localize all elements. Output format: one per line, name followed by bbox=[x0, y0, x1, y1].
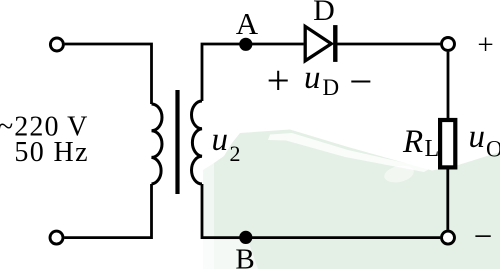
svg-text:D: D bbox=[323, 75, 340, 100]
node B bbox=[239, 231, 252, 244]
diode D triangle bbox=[305, 26, 331, 60]
svg-text:u: u bbox=[469, 119, 486, 155]
svg-text:A: A bbox=[236, 6, 259, 41]
svg-text:2: 2 bbox=[230, 141, 241, 166]
svg-text:+: + bbox=[477, 29, 493, 61]
wire primary to terminal bottom-left bbox=[64, 184, 151, 238]
svg-text:−: − bbox=[349, 58, 372, 104]
svg-text:B: B bbox=[235, 244, 254, 269]
svg-text:O: O bbox=[486, 137, 500, 162]
resistor RL bbox=[440, 120, 455, 167]
wire terminal top-right to resistor bbox=[447, 52, 450, 119]
wire top-left to primary bbox=[65, 44, 152, 104]
node A bbox=[239, 38, 252, 51]
svg-text:L: L bbox=[425, 136, 440, 162]
terminal top-right bbox=[442, 38, 455, 51]
watermark green region bbox=[214, 130, 500, 269]
watermark light blob bbox=[383, 163, 416, 185]
svg-text:−: − bbox=[474, 219, 493, 255]
svg-text:u: u bbox=[212, 122, 229, 158]
svg-text:R: R bbox=[402, 124, 423, 160]
wire diode to terminal top-right bbox=[338, 43, 441, 46]
watermark soft left strip bbox=[203, 163, 214, 269]
svg-text:50 Hz: 50 Hz bbox=[14, 137, 89, 168]
svg-text:+: + bbox=[267, 57, 290, 103]
terminal bottom-right bbox=[442, 231, 455, 244]
terminal bottom-left bbox=[50, 231, 63, 244]
svg-text:D: D bbox=[313, 0, 335, 27]
watermark light streak bbox=[268, 133, 430, 172]
wire secondary bottom bbox=[202, 184, 440, 238]
terminal top-left bbox=[50, 38, 63, 51]
wire resistor to terminal bottom-right bbox=[446, 168, 449, 230]
transformer secondary winding bbox=[192, 101, 202, 184]
watermark light pocket below B bbox=[203, 240, 258, 269]
transformer core bbox=[175, 90, 179, 194]
transformer primary winding bbox=[152, 104, 163, 184]
diode D cathode bar bbox=[333, 25, 337, 62]
svg-text:u: u bbox=[304, 60, 321, 96]
wire secondary top to diode bbox=[202, 44, 304, 101]
